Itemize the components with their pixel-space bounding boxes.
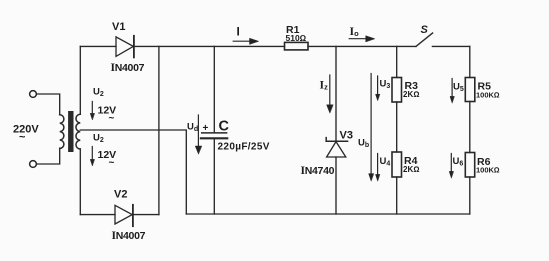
svg-text:U6: U6 [453,156,464,168]
svg-text:2KΩ: 2KΩ [403,90,419,99]
wire left spine lower (secondary bottom to V2 row) [79,149,81,215]
svg-text:+: + [203,123,209,134]
wire V2 cathode to riser [133,214,159,216]
arrow U4 [376,154,380,182]
resistor R6 [465,153,474,178]
svg-text:2KΩ: 2KΩ [403,165,419,174]
arrow Iz [327,75,333,113]
wire top rail segment C [308,45,416,47]
resistor R4 [392,152,402,177]
switch S [416,33,433,46]
wire R5R6 branch top [469,46,471,77]
wire capacitor branch lower [213,139,215,214]
svg-text:220V: 220V [13,124,39,136]
wire R3 to R4 [396,102,398,152]
svg-text:100KΩ: 100KΩ [476,91,500,100]
svg-text:IN4007: IN4007 [111,61,145,74]
wire V2 row [80,214,115,216]
wire primary top [37,94,60,115]
arrow U6 [449,154,453,179]
transformer secondary winding [76,114,80,149]
svg-text:U3: U3 [380,79,391,91]
wire R5 to R6 [469,102,471,153]
resistor R5 [465,78,475,102]
arrow I [233,38,258,44]
wire top rail segment D [432,45,469,47]
wire R3R4 branch top [396,46,398,77]
arrow Ud [195,115,201,154]
wire capacitor branch upper [213,46,215,132]
svg-text:S: S [421,24,429,36]
diode V1 [116,36,134,58]
svg-text:~: ~ [109,113,115,124]
transformer T primary winding [60,115,64,149]
svg-text:~: ~ [109,158,115,169]
svg-text:IN4007: IN4007 [112,229,146,242]
svg-text:U5: U5 [453,82,464,94]
svg-text:U4: U4 [380,156,391,168]
wire R4 to ground [396,177,398,214]
svg-text:100KΩ: 100KΩ [476,166,500,175]
svg-text:C: C [219,119,230,135]
wire R6 to ground [469,177,471,214]
svg-text:V2: V2 [114,189,127,201]
arrow Io [349,36,375,42]
svg-text:Ub: Ub [358,138,369,150]
resistor R3 [392,78,402,103]
resistor R1 [285,42,309,50]
diode V2 [115,205,133,226]
arrow U3 [376,76,380,101]
svg-text:Io: Io [350,24,360,38]
svg-text:U2: U2 [93,133,104,145]
svg-text:I: I [237,25,240,39]
svg-text:IN4740: IN4740 [301,164,335,177]
svg-text:220µF/25V: 220µF/25V [218,142,270,153]
zener diode V3 [326,138,347,157]
wire riser x159 [158,46,160,214]
wire primary bottom [37,148,60,164]
wire top rail segment A [80,45,116,47]
wire left spine upper (secondary top to top rail) [79,46,81,114]
wire top rail segment B [134,45,285,47]
wire center tap to ground corner [80,130,186,214]
terminal bottom-left [30,161,37,168]
svg-text:Iz: Iz [320,78,329,92]
arrow U5 [450,79,454,104]
svg-text:V3: V3 [340,130,353,142]
svg-text:U2: U2 [93,87,104,99]
wire zener branch lower [335,157,337,214]
svg-text:Ud: Ud [187,122,198,134]
wire zener branch upper [335,46,337,141]
transformer core [68,111,73,152]
wire ground rail [186,213,470,215]
svg-text:510Ω: 510Ω [286,33,307,43]
terminal top-left [30,91,37,98]
capacitor C [201,133,227,138]
arrow U2 lower [90,147,94,166]
svg-text:~: ~ [19,132,26,144]
svg-text:V1: V1 [112,21,125,33]
arrow U2 upper [90,102,94,120]
arrow Ub [369,74,374,182]
